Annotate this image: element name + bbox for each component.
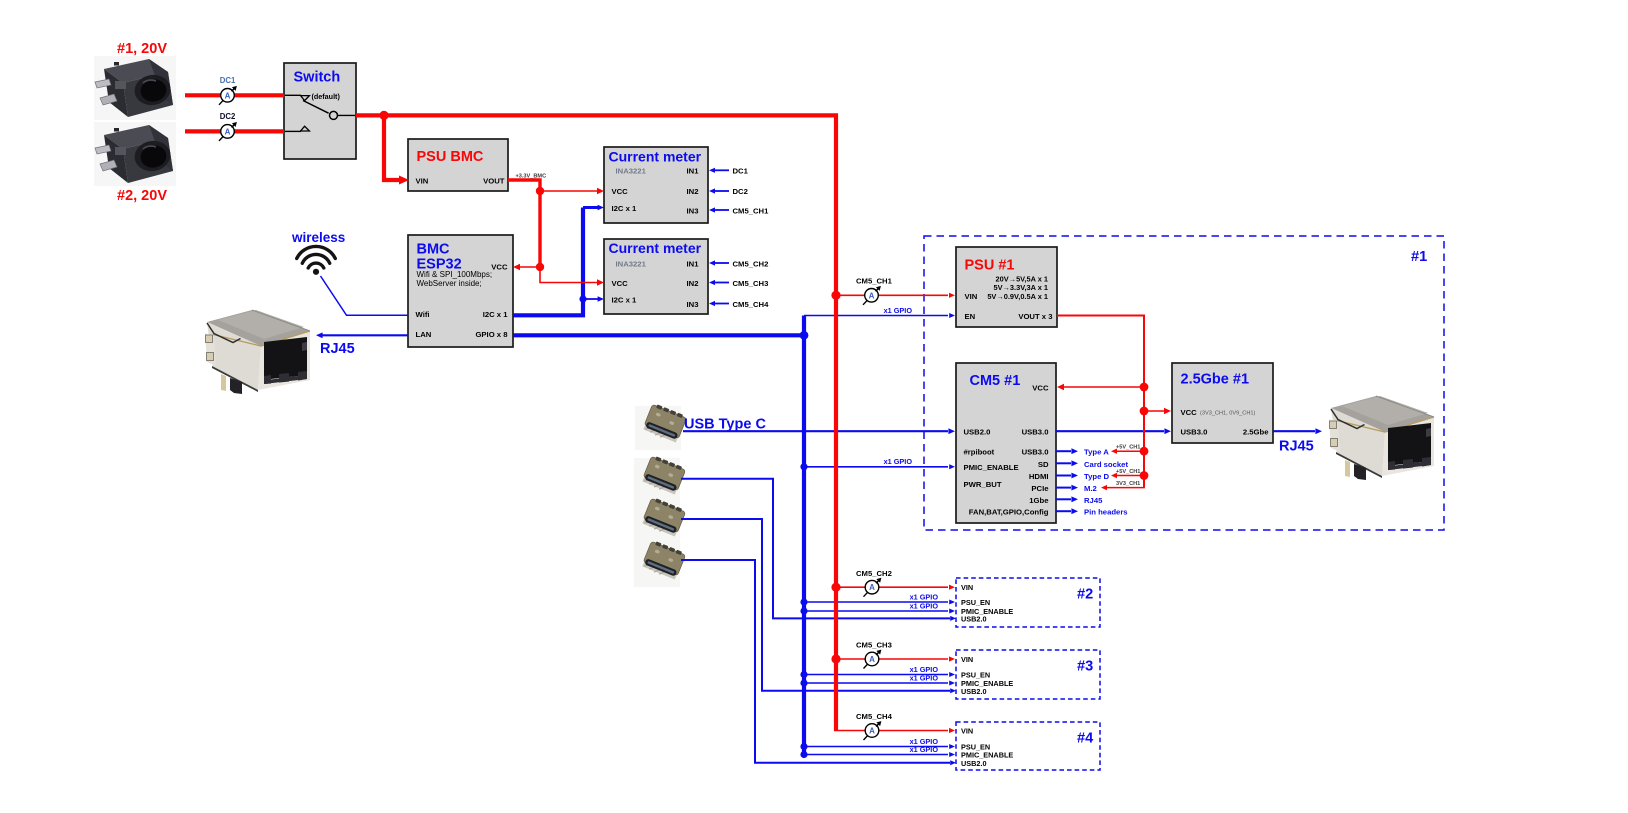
wire +3.3V to current meter 2 VCC [540, 267, 604, 286]
wire BMC Wifi antenna [321, 276, 409, 315]
USB Type C photo 1 [635, 403, 687, 450]
svg-text:PCIe: PCIe [1031, 484, 1049, 493]
svg-text:Current meter: Current meter [609, 149, 702, 165]
svg-text:A: A [869, 291, 875, 300]
svg-text:Card socket: Card socket [1084, 460, 1128, 469]
block BMC ESP32 [408, 235, 513, 347]
svg-text:5V→3.3V,3A x 1: 5V→3.3V,3A x 1 [993, 283, 1048, 292]
wireless wifi icon [297, 246, 336, 268]
wire 2.5Gbe to RJ45 [1273, 428, 1322, 434]
wire CM5 out RJ45 [1056, 496, 1078, 502]
svg-text:PSU_EN: PSU_EN [961, 598, 990, 607]
svg-text:I2C x 1: I2C x 1 [612, 204, 638, 213]
svg-text:3V3_CH1: 3V3_CH1 [1116, 481, 1140, 487]
wire CM5 out Type D [1056, 473, 1078, 479]
wire USB-C 1 to CM5 USB2.0 [683, 428, 955, 434]
wire 3V3_CH1 to M.2 [1101, 476, 1144, 491]
block CM5 #1 [956, 363, 1056, 523]
svg-text:USB2.0: USB2.0 [961, 687, 987, 696]
svg-text:IN3: IN3 [687, 300, 699, 309]
ammeter CM5_CH2 [864, 578, 882, 597]
RJ45 jack photo (2.5Gbe) [1329, 396, 1434, 480]
svg-text:HDMI: HDMI [1029, 472, 1049, 481]
svg-text:20V→5V,5A x 1: 20V→5V,5A x 1 [996, 274, 1048, 283]
switch common output line [338, 114, 356, 116]
svg-text:VOUT x 3: VOUT x 3 [1018, 312, 1052, 321]
ammeter CM5_CH1 [863, 286, 881, 305]
svg-text:#2: #2 [1077, 587, 1093, 603]
svg-text:x1 GPIO: x1 GPIO [910, 592, 939, 601]
wire BMC I2C bus [513, 208, 583, 316]
svg-text:#1, 20V: #1, 20V [117, 41, 167, 57]
svg-text:PWR_BUT: PWR_BUT [964, 480, 1002, 489]
junction switch output [379, 111, 388, 120]
svg-text:LAN: LAN [416, 330, 432, 339]
wire x1 GPIO to PSU #1 EN [804, 313, 955, 318]
svg-text:+5V_CH1: +5V_CH1 [1116, 445, 1140, 451]
svg-text:#3: #3 [1077, 659, 1093, 675]
wire GPIO vertical bus [802, 316, 806, 755]
svg-text:IN1: IN1 [687, 167, 700, 176]
svg-text:VIN: VIN [416, 176, 429, 185]
svg-text:IN2: IN2 [687, 187, 699, 196]
svg-text:2.5Gbe #1: 2.5Gbe #1 [1181, 372, 1250, 388]
svg-text:I2C x 1: I2C x 1 [483, 310, 509, 319]
svg-text:VCC: VCC [612, 279, 629, 288]
junction VOUT node TypeD [1140, 471, 1149, 480]
wire x1 GPIO to #4 PMIC_ENABLE [804, 752, 955, 757]
ammeter CM5_CH3 [864, 650, 882, 669]
wire current meter 1 DC2 input [709, 188, 729, 193]
junction I2C bus [579, 295, 586, 302]
wire I2C to current meter 1 [583, 205, 604, 211]
svg-text:(default): (default) [312, 92, 341, 101]
dashed group box #3 [956, 650, 1100, 699]
wire current meter 1 DC1 input [709, 168, 729, 173]
svg-text:PMIC_ENABLE: PMIC_ENABLE [964, 463, 1019, 472]
svg-text:CM5 #1: CM5 #1 [970, 373, 1021, 389]
wire CM5 out Type A [1056, 448, 1078, 454]
USB Type C photo 2 [634, 455, 686, 502]
DC jack photo J2 [94, 122, 176, 186]
svg-text:+5V_CH1: +5V_CH1 [1116, 469, 1140, 475]
USB Type C photo 3 [634, 497, 686, 544]
switch common contact circle [330, 111, 338, 119]
wire x1 GPIO to #2 PMIC_ENABLE [804, 609, 955, 614]
dashed group box #1 [924, 236, 1444, 530]
svg-text:VCC: VCC [1181, 408, 1198, 417]
junction main rail CH1 [831, 291, 840, 300]
svg-text:#1: #1 [1411, 249, 1427, 265]
svg-text:A: A [225, 127, 231, 136]
block PSU #1 [956, 247, 1057, 327]
junction +3.3V node A [536, 187, 544, 195]
svg-text:GPIO x 8: GPIO x 8 [475, 330, 508, 339]
svg-text:1Gbe: 1Gbe [1029, 496, 1049, 505]
wire x1 GPIO to #4 PSU_EN [804, 744, 955, 749]
svg-text:INA3221: INA3221 [616, 167, 647, 176]
wire +3.3V to current meter 1 VCC [540, 188, 604, 194]
svg-text:CM5_CH2: CM5_CH2 [856, 569, 892, 578]
svg-text:A: A [225, 91, 231, 100]
svg-text:CM5_CH2: CM5_CH2 [733, 259, 769, 268]
junction VOUT node VCC [1140, 383, 1149, 392]
wire current meter 1 CM5_CH1 input [709, 207, 729, 212]
wire +3.3V to BMC VCC [513, 264, 540, 270]
junction VOUT node Gbe [1140, 407, 1149, 416]
svg-text:Pin headers: Pin headers [1084, 508, 1128, 517]
wire VOUT to 2.5Gbe VCC [1144, 408, 1171, 414]
svg-text:x1 GPIO: x1 GPIO [910, 673, 939, 682]
wire CM5 out Card socket [1056, 460, 1078, 466]
svg-text:CM5_CH1: CM5_CH1 [733, 206, 770, 215]
svg-text:wireless: wireless [291, 230, 345, 245]
junction VOUT node TypeA [1140, 447, 1149, 456]
junction main rail CH2 [831, 583, 840, 592]
svg-text:VCC: VCC [1032, 383, 1049, 392]
svg-text:x1 GPIO: x1 GPIO [910, 601, 939, 610]
wire x1 GPIO to #3 PMIC_ENABLE [804, 681, 955, 686]
svg-text:M.2: M.2 [1084, 484, 1097, 493]
junction main rail CH3 [831, 654, 840, 663]
svg-text:RJ45: RJ45 [1279, 439, 1314, 455]
USB Type C photo 4 [634, 540, 686, 587]
junction GPIO #2 b [800, 607, 807, 614]
wire USB-C 4 to #4 USB2.0 [681, 560, 956, 765]
svg-text:I2C x 1: I2C x 1 [612, 295, 638, 304]
svg-text:VCC: VCC [491, 262, 508, 271]
dashed group box #2 [956, 578, 1100, 627]
wire x1 GPIO to #2 PSU_EN [804, 600, 955, 605]
svg-text:IN1: IN1 [687, 259, 700, 268]
wire CM5_CH4 feed to #4 VIN [834, 728, 955, 733]
wire USB-C 3 to #3 USB2.0 [681, 519, 956, 693]
RJ45 jack photo (BMC LAN) [205, 310, 310, 394]
switch contact pole 2 [285, 126, 309, 131]
junction GPIO PMIC [800, 463, 807, 470]
svg-text:CM5_CH3: CM5_CH3 [733, 279, 769, 288]
svg-text:x1 GPIO: x1 GPIO [910, 745, 939, 754]
svg-text:SD: SD [1038, 460, 1049, 469]
svg-text:RJ45: RJ45 [320, 341, 355, 357]
wire current meter 2 CM5_CH3 input [709, 280, 729, 285]
wire CM5_CH2 feed to #2 VIN [836, 585, 955, 590]
svg-text:Type A: Type A [1084, 448, 1109, 457]
svg-text:+3.3V_BMC: +3.3V_BMC [516, 173, 547, 179]
svg-text:2.5Gbe: 2.5Gbe [1243, 428, 1269, 437]
switch contact pole 1 (default) [285, 95, 309, 100]
wire branch to PSU BMC VIN [384, 115, 409, 184]
wire current meter 2 CM5_CH4 input [709, 301, 729, 306]
svg-text:CM5_CH4: CM5_CH4 [733, 300, 770, 309]
wire switch output main 20V rail [356, 115, 836, 730]
wire USB-C 2 to #2 USB2.0 [681, 479, 956, 621]
wire x1 GPIO to CM5 PMIC_ENABLE [804, 464, 955, 469]
svg-text:VOUT: VOUT [483, 176, 505, 185]
wire I2C to current meter 2 [583, 296, 604, 302]
junction GPIO #4 b [800, 751, 807, 758]
wire +5V_CH1 to Type D [1111, 473, 1144, 478]
wire +5V_CH1 to Type A [1111, 449, 1144, 454]
svg-text:USB3.0: USB3.0 [1022, 448, 1049, 457]
svg-text:RJ45: RJ45 [1084, 496, 1103, 505]
wire CM5_CH3 feed to #3 VIN [836, 656, 955, 661]
wire DC1 to switch [185, 93, 284, 97]
ammeter CM5_CH4 [864, 721, 882, 740]
svg-text:INA3221: INA3221 [616, 259, 647, 268]
wire current meter 2 CM5_CH2 input [709, 260, 729, 265]
svg-text:USB Type C: USB Type C [684, 417, 766, 433]
svg-text:BMC: BMC [417, 242, 451, 258]
svg-text:USB2.0: USB2.0 [961, 615, 987, 624]
dashed group box #4 [956, 722, 1100, 770]
svg-text:CM5_CH1: CM5_CH1 [856, 276, 893, 285]
svg-text:VIN: VIN [965, 292, 978, 301]
block Current meter 2 [604, 239, 708, 314]
ammeter DC1 [219, 86, 237, 105]
wire CM5_CH1 feed to PSU #1 VIN [836, 293, 955, 298]
junction GPIO bus [800, 331, 809, 340]
DC jack photo J1 [94, 56, 176, 120]
wire PSU #1 VOUT x 3 rail [1057, 316, 1144, 488]
junction GPIO #3 a [800, 671, 807, 678]
svg-text:Type D: Type D [1084, 472, 1110, 481]
svg-text:#2, 20V: #2, 20V [117, 188, 167, 204]
block 2.5Gbe #1 [1172, 363, 1273, 443]
svg-text:IN3: IN3 [687, 206, 699, 215]
svg-text:USB2.0: USB2.0 [961, 759, 987, 768]
svg-text:VIN: VIN [961, 583, 973, 592]
svg-text:VIN: VIN [961, 726, 973, 735]
svg-text:PSU BMC: PSU BMC [417, 149, 484, 165]
svg-text:USB2.0: USB2.0 [964, 428, 991, 437]
block PSU BMC [408, 139, 508, 191]
wire BMC GPIO x 8 bus [513, 333, 804, 337]
svg-text:IN2: IN2 [687, 279, 699, 288]
svg-text:FAN,BAT,GPIO,Config: FAN,BAT,GPIO,Config [969, 508, 1049, 517]
svg-text:PSU #1: PSU #1 [965, 258, 1015, 274]
svg-text:VCC: VCC [612, 187, 629, 196]
svg-text:WebServer inside;: WebServer inside; [417, 279, 482, 288]
wire CM5 out M.2 [1056, 485, 1078, 491]
svg-text:A: A [869, 655, 875, 664]
svg-text:USB3.0: USB3.0 [1181, 428, 1208, 437]
ammeter DC2 [219, 122, 237, 141]
junction GPIO #2 a [800, 598, 807, 605]
svg-text:CM5_CH3: CM5_CH3 [856, 641, 892, 650]
svg-text:VIN: VIN [961, 655, 973, 664]
svg-text:DC2: DC2 [733, 187, 748, 196]
wire VOUT to CM5 VCC [1057, 384, 1144, 390]
block Switch [284, 63, 356, 159]
wire CM5 USB3.0 to 2.5Gbe [1056, 428, 1171, 434]
svg-text:Wifi: Wifi [416, 310, 430, 319]
svg-text:USB3.0: USB3.0 [1022, 428, 1049, 437]
wire x1 GPIO to #3 PSU_EN [804, 672, 955, 677]
wire PSU BMC VOUT +3.3V_BMC [508, 180, 540, 267]
svg-text:#4: #4 [1077, 731, 1094, 747]
svg-text:x1 GPIO: x1 GPIO [884, 457, 913, 466]
svg-text:EN: EN [965, 312, 976, 321]
junction +3.3V node B [536, 263, 544, 271]
svg-text:A: A [869, 727, 875, 736]
svg-text:DC2: DC2 [220, 112, 236, 121]
wire CM5 out Pin headers [1056, 508, 1078, 514]
svg-text:(3V3_CH1, 0V9_CH1): (3V3_CH1, 0V9_CH1) [1200, 410, 1255, 416]
switch lever arm [303, 101, 329, 114]
svg-text:#rpiboot: #rpiboot [964, 448, 995, 457]
svg-text:Current meter: Current meter [609, 240, 702, 256]
svg-text:CM5_CH4: CM5_CH4 [856, 712, 893, 721]
svg-text:Switch: Switch [294, 70, 341, 86]
wire DC2 to switch [185, 129, 284, 133]
junction GPIO #3 b [800, 679, 807, 686]
wire BMC LAN to RJ45 [316, 332, 408, 338]
svg-text:x1 GPIO: x1 GPIO [884, 306, 913, 315]
junction GPIO #4 a [800, 743, 807, 750]
svg-text:DC1: DC1 [733, 167, 749, 176]
svg-text:DC1: DC1 [220, 76, 236, 85]
svg-text:A: A [869, 583, 875, 592]
svg-text:5V→0.9V,0.5A x 1: 5V→0.9V,0.5A x 1 [987, 292, 1048, 301]
block Current meter 1 [604, 147, 708, 223]
